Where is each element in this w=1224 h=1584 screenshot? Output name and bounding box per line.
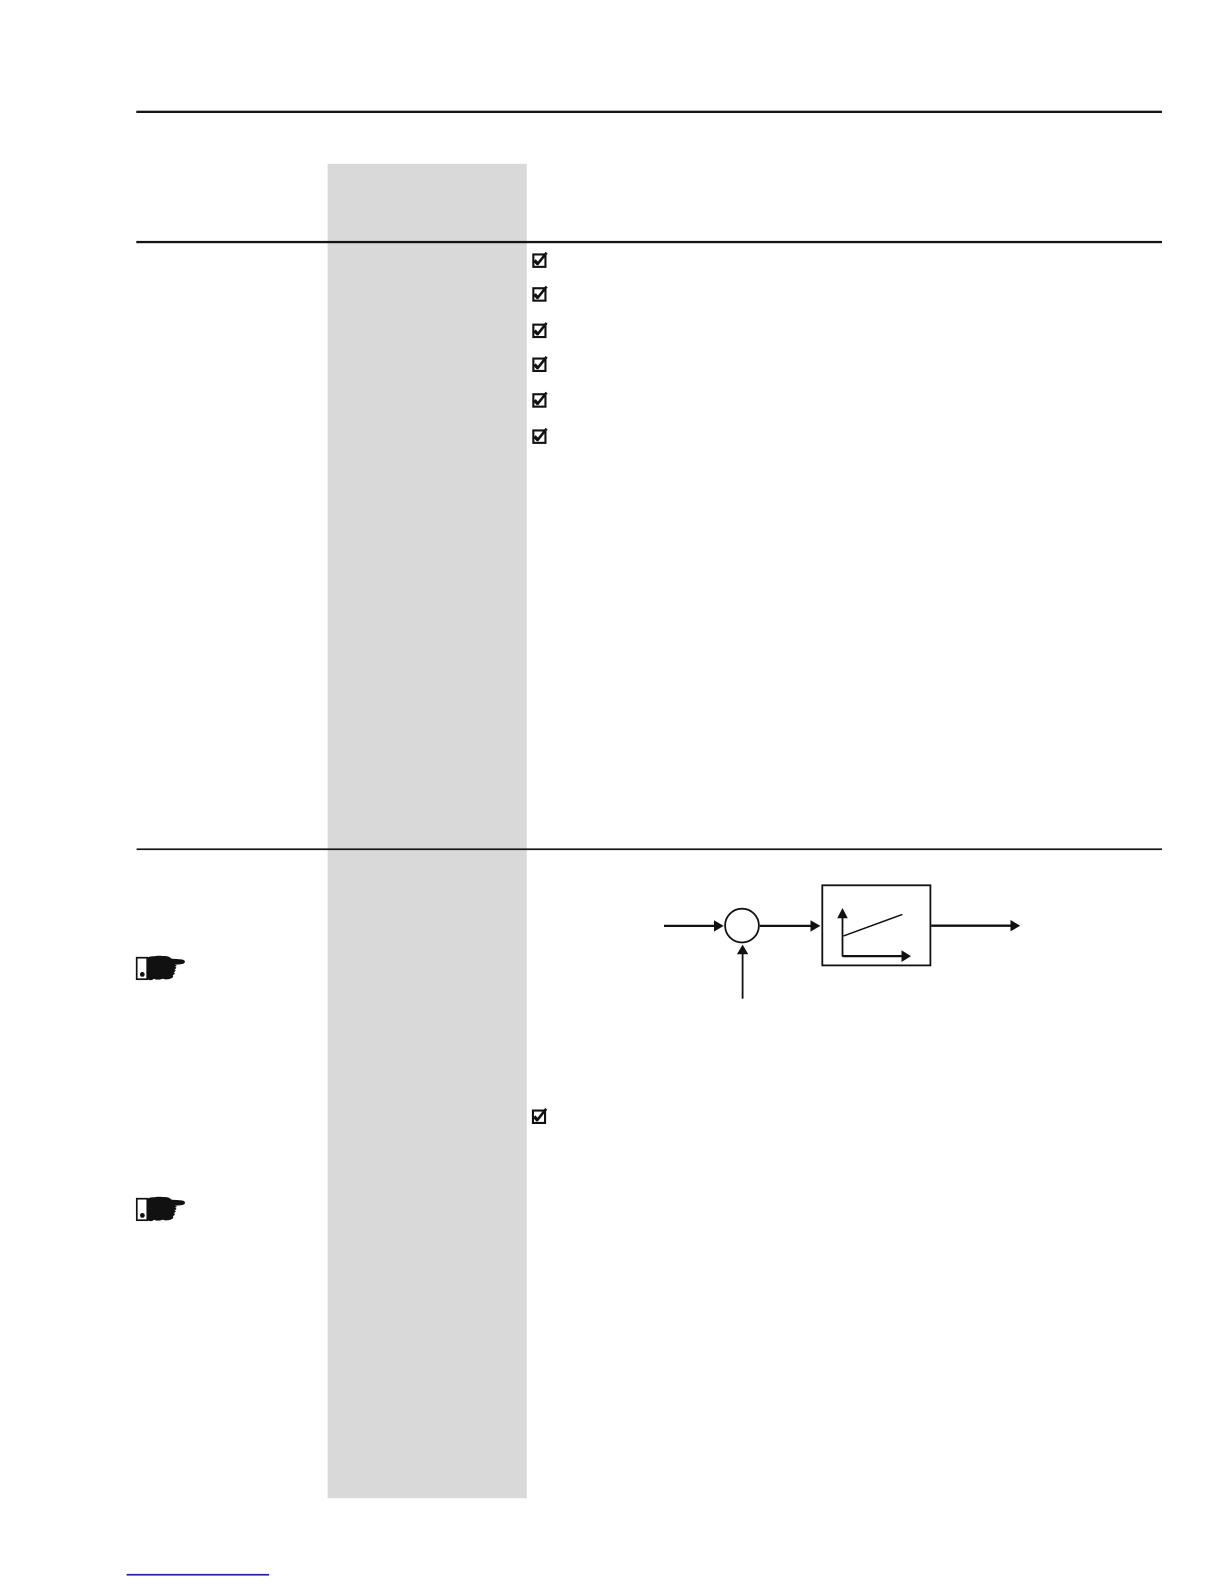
gray sidebar column [328, 164, 527, 1498]
block diagram: summing junction circle [725, 909, 759, 943]
top rule [136, 111, 1162, 113]
section rule [137, 848, 1162, 850]
block diagram: gain box [822, 885, 930, 965]
block diagram: output arrow [931, 925, 1011, 927]
checkbox 4 [533, 357, 546, 371]
header rule [136, 241, 1162, 243]
checkbox 5 [533, 393, 546, 407]
block diagram: input arrow [664, 925, 715, 927]
note hand icon 2 [137, 1197, 185, 1221]
block diagram: graph horizontal axis [843, 955, 903, 957]
checkbox 2 [533, 287, 546, 301]
footer blue underline [127, 1574, 270, 1576]
block diagram: arrow circle to box [760, 925, 811, 927]
checkbox 7 [533, 1109, 546, 1123]
checkbox 6 [533, 429, 546, 443]
note hand icon 1 [137, 956, 185, 980]
block diagram: graph ramp line [844, 914, 903, 936]
checkbox 3 [533, 323, 546, 337]
block diagram: feedback arrow (vertical) [742, 954, 744, 999]
block diagram: graph vertical axis [842, 917, 844, 957]
checkbox 1 [533, 253, 546, 267]
